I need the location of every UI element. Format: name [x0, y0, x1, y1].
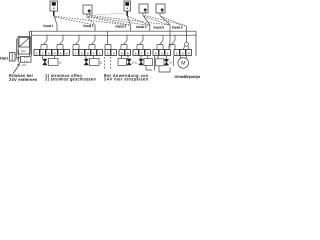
transformer T1 symbol square with diagonal — [19, 38, 29, 47]
svg-text:24V entfernen: 24V entfernen — [9, 77, 38, 82]
thermostat B5 stem — [159, 13, 161, 16]
valve V1 drop wires — [43, 56, 55, 60]
jumper bridge block — [16, 58, 20, 63]
actuator M4 box — [144, 59, 153, 66]
terminal 14 — [119, 50, 124, 56]
feed wire middle channels — [105, 31, 111, 49]
svg-text:Netz: Netz — [0, 57, 9, 61]
svg-text:24V~: 24V~ — [22, 64, 29, 67]
terminal 22 — [174, 50, 179, 56]
wire B2 to Kanal 5 (dashed) — [89, 15, 170, 25]
terminal 8 — [79, 50, 84, 56]
svg-text:0: 0 — [93, 52, 95, 56]
terminal 10 — [91, 50, 96, 56]
terminal 5 — [58, 50, 63, 56]
transformer T1 box — [18, 37, 30, 54]
svg-text:4: 4 — [188, 52, 190, 56]
terminal strip row — [34, 50, 191, 56]
Netz plug box — [10, 53, 16, 62]
svg-text:M: M — [181, 61, 185, 67]
actuator M2 box — [90, 59, 100, 66]
actuator M1 box — [49, 59, 59, 66]
wire B2 to Kanal 2 (dashed) — [88, 18, 96, 25]
svg-text:9: 9 — [155, 52, 157, 56]
node Kanal6 tick / pump wire — [186, 26, 188, 42]
terminal 4 — [52, 50, 57, 56]
controller box outer top edge — [30, 30, 197, 32]
terminal 7 — [73, 50, 78, 56]
wire B2 to Kanal 4 (dashed) — [89, 16, 150, 25]
svg-text:3: 3 — [113, 52, 115, 56]
room sensor B1 dot — [53, 8, 54, 9]
node Kanal1 tick — [56, 25, 58, 32]
svg-text:9: 9 — [87, 52, 89, 56]
terminal 18 — [145, 50, 150, 56]
terminal 16 — [133, 50, 138, 56]
valve V5 (hourglass) — [164, 59, 169, 65]
room sensor B3 head — [124, 1, 131, 11]
thermostat B4 — [139, 4, 148, 13]
room sensor B3 display (dark) — [125, 2, 129, 6]
node Kanal3 tick — [130, 25, 132, 32]
terminal 19 — [153, 50, 158, 56]
node Kanal5 tick — [169, 25, 171, 32]
svg-text:1): 1) — [135, 61, 138, 65]
thermostat B2 stem — [86, 14, 88, 18]
relay contact K1 — [41, 35, 47, 49]
thermostat B2 dial — [88, 9, 91, 12]
svg-text:24V: 24V — [21, 49, 26, 53]
thermostat B4 stem — [142, 13, 144, 16]
relay contact K8 — [157, 35, 163, 49]
terminal 12 — [105, 50, 110, 56]
svg-text:2: 2 — [176, 52, 178, 56]
valve V1 (hourglass) — [43, 59, 48, 65]
wire B3 to Kanal 3 — [127, 16, 131, 25]
svg-text:Kanal 3: Kanal 3 — [116, 25, 127, 29]
relay contact K7 — [137, 35, 143, 49]
controller box right edge — [195, 31, 197, 56]
svg-text:4: 4 — [54, 52, 56, 56]
svg-text:1: 1 — [36, 52, 38, 56]
pump relay coil — [185, 42, 189, 46]
actuator M4 tail wire — [146, 66, 152, 71]
terminal 11 — [97, 50, 102, 56]
controller box inner left edge — [31, 31, 33, 56]
node Kanal4 tick — [149, 25, 151, 32]
feed wire down — [154, 56, 156, 71]
wire B1 to Kanal 1 — [54, 16, 57, 25]
svg-text:6: 6 — [135, 52, 137, 56]
svg-text:1: 1 — [167, 52, 169, 56]
terminal 15 — [125, 50, 130, 56]
wire B4 to Kanal 4 — [144, 16, 150, 25]
thermostat B5 — [156, 4, 165, 13]
thermostat B4 dial — [144, 8, 147, 11]
svg-text:0: 0 — [161, 52, 163, 56]
svg-text:7: 7 — [141, 52, 143, 56]
svg-text:7: 7 — [75, 52, 77, 56]
svg-text:1: 1 — [99, 52, 101, 56]
svg-text:2): 2) — [169, 61, 172, 65]
pump drop wires — [180, 56, 186, 59]
svg-text:2) stromlos geschlossen: 2) stromlos geschlossen — [45, 77, 96, 82]
svg-text:Umwälzpumpe: Umwälzpumpe — [175, 74, 201, 79]
terminal 2 — [40, 50, 45, 56]
wire B1 to Kanal 2 (dashed) — [55, 17, 95, 25]
actuator M5 box — [156, 59, 165, 66]
svg-text:2): 2) — [100, 61, 103, 65]
wire B3 to Kanal 4 (dashed) — [128, 17, 150, 26]
relay contact K3 — [73, 35, 79, 49]
terminal number marks — [36, 52, 190, 56]
svg-text:Kanal 4: Kanal 4 — [136, 25, 147, 29]
terminal 23 — [180, 50, 185, 56]
continuation dashed wire b — [110, 57, 112, 70]
relay contact K4 — [89, 35, 95, 49]
relay contact K9 — [169, 35, 175, 49]
valve V3 drop wires — [122, 56, 128, 60]
wire B2 to Kanal 3 (dashed) — [88, 17, 130, 25]
valve V2 (hourglass) — [84, 59, 89, 65]
actuator M5 tail wire — [159, 66, 170, 72]
valve V4 (hourglass) — [139, 59, 144, 65]
relay contact K6 — [121, 35, 127, 49]
svg-text:2: 2 — [107, 52, 109, 56]
valve V5 drop wires — [158, 56, 166, 60]
svg-text:Kanal 5: Kanal 5 — [154, 25, 165, 29]
valve V2 drop wires — [86, 56, 94, 60]
wire down right of valve V5 — [173, 56, 175, 66]
svg-text:Kanal 6: Kanal 6 — [172, 26, 183, 30]
wire B5 to Kanal 6 (dashed) — [161, 16, 186, 26]
thermostat B5 dial — [161, 8, 164, 11]
terminal 21 — [165, 50, 170, 56]
svg-text:Kanal 2: Kanal 2 — [83, 24, 94, 28]
room sensor B3 dot — [127, 8, 128, 9]
thermostat B2 — [83, 5, 92, 14]
svg-text:6: 6 — [66, 52, 68, 56]
svg-text:8: 8 — [81, 52, 83, 56]
svg-text:8: 8 — [147, 52, 149, 56]
wire mains vertical left — [15, 39, 17, 58]
terminal 13 — [111, 50, 116, 56]
room sensor B1 stem — [53, 11, 55, 16]
actuator M3 box — [118, 59, 127, 66]
svg-text:5: 5 — [60, 52, 62, 56]
terminal 1 — [34, 50, 39, 56]
relay contact K2 — [57, 35, 63, 49]
wire B1 to Kanal 3 (dashed) — [56, 16, 130, 25]
svg-text:3: 3 — [48, 52, 50, 56]
dotted link wire D2-D3 — [90, 13, 126, 15]
terminal 20 — [159, 50, 164, 56]
continuation dashed wire a — [104, 57, 106, 70]
Kanal 5 wire into box — [169, 31, 171, 47]
controller box outer left edge — [29, 31, 31, 56]
svg-text:5: 5 — [127, 52, 129, 56]
terminal 6 — [64, 50, 69, 56]
svg-text:4: 4 — [121, 52, 123, 56]
controller box inner top edge — [32, 34, 196, 36]
valve V4 drop wires — [141, 56, 148, 60]
wire B4 to Kanal 6 (dashed) — [145, 15, 187, 26]
terminal 17 — [139, 50, 144, 56]
wire mains vertical right — [18, 50, 20, 62]
wire B4 to Kanal 5 (dashed) — [144, 16, 170, 25]
svg-text:2): 2) — [59, 61, 62, 65]
svg-text:24V hier einspeisen: 24V hier einspeisen — [104, 77, 149, 82]
svg-text:2): 2) — [132, 61, 135, 65]
room sensor B3 stem — [126, 11, 128, 16]
pump P1 circle — [178, 58, 189, 69]
room sensor B1 head — [50, 1, 58, 11]
room sensor B1 display (dark) — [52, 2, 56, 5]
wire plug to transformer bottom — [15, 58, 19, 60]
arrow to jumpers — [13, 63, 20, 74]
terminal 9 — [85, 50, 90, 56]
valve V3 (hourglass) — [127, 59, 132, 65]
terminal 24 — [186, 50, 191, 56]
node Kanal2 tick — [94, 25, 96, 32]
svg-text:2: 2 — [42, 52, 44, 56]
wire plug to transformer top — [15, 54, 16, 56]
wire B5 to Kanal 5 — [161, 16, 171, 25]
svg-text:3: 3 — [182, 52, 184, 56]
svg-text:Kanal 1: Kanal 1 — [43, 24, 54, 28]
terminal 3 — [46, 50, 51, 56]
